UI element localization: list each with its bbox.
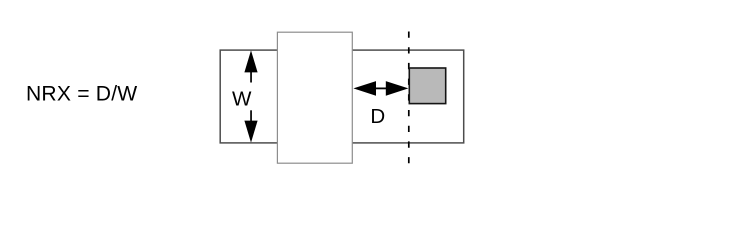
dimension arrow W (vertical double-headed) (244, 50, 257, 142)
svg-text:W: W (232, 88, 252, 111)
outer horizontal rectangle (gate region) (220, 50, 464, 143)
dashed center line (408, 32, 410, 164)
svg-text:D: D (370, 105, 385, 128)
inner vertical rectangle (crossing region, white fill over outer rect) (277, 32, 352, 163)
D arrow shaft (375, 88, 388, 90)
dimension arrow D (horizontal double-headed) (353, 81, 408, 96)
W arrow lower head (244, 121, 257, 143)
D arrow right head (386, 81, 409, 96)
W arrow upper shaft (250, 71, 252, 83)
W arrow upper head (244, 50, 257, 72)
gray contact square (409, 68, 445, 104)
D arrow left head (353, 81, 376, 96)
svg-text:NRX = D/W: NRX = D/W (26, 82, 137, 105)
W arrow lower shaft (250, 110, 252, 122)
